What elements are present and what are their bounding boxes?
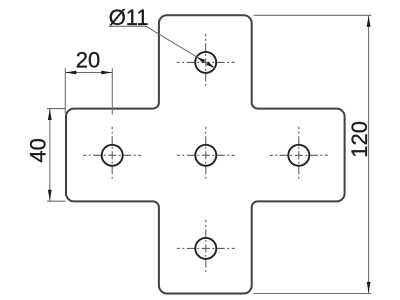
svg-text:20: 20 xyxy=(76,47,100,72)
svg-text:40: 40 xyxy=(26,138,51,162)
svg-text:120: 120 xyxy=(347,121,372,158)
svg-text:Ø11: Ø11 xyxy=(109,5,149,30)
